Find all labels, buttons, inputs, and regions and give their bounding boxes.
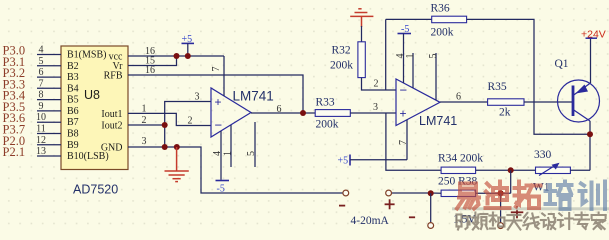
svg-text:B3: B3 [67,72,79,83]
svg-text:R34 200k: R34 200k [438,153,483,165]
op-amp LM741 (second, inverted) [396,79,457,128]
svg-text:+: + [400,107,407,121]
wire ground to R32 [361,26,363,42]
svg-text:+5: +5 [182,34,193,45]
svg-text:RFB: RFB [104,71,123,82]
svg-text:Q1: Q1 [555,58,569,70]
junction ground symbol tap [174,144,180,150]
svg-text:1: 1 [223,151,234,156]
svg-text:+24V: +24V [581,29,606,41]
svg-text:200k: 200k [330,60,353,72]
svg-text:LM741: LM741 [233,89,274,104]
svg-text:B9: B9 [67,140,79,151]
svg-text:5: 5 [39,56,44,67]
wire RFB to output node [128,75,303,113]
svg-text:200k: 200k [431,27,454,39]
resistor R33 200k [315,97,350,131]
wire R34 to W1 [476,169,536,171]
svg-text:1: 1 [142,103,147,114]
loop minus mark [409,216,415,218]
svg-text:5: 5 [246,151,257,156]
resistor R35 2k [488,81,525,119]
4-20mA minus mark [339,205,345,207]
junction Iout2 on ground vertical [162,122,168,128]
watermark underline bar [452,207,609,210]
svg-text:−: − [215,118,223,133]
watermark gray line (simulated CJK): she pin he tian xian she ji zhuan jia [457,213,606,230]
svg-text:Iout1: Iout1 [101,109,122,120]
4-20mA plus mark [385,199,395,209]
wire down to loop minus terminal [430,193,432,222]
wire R38 branch vertical [510,170,512,193]
wire GND pin to ground and bottom rail [128,147,346,193]
svg-text:11: 11 [36,124,46,135]
power +24V [581,29,606,41]
power +5 (bottom) [338,155,351,167]
wire W1 right to emitter vertical [570,169,590,171]
wire vcc pin16 to +5 and op1 pin7 [128,55,224,57]
wire +5 to op2 pin 7 [350,159,407,161]
watermark big chars 4-5 (blue-gray, simulated CJK) [546,182,606,210]
wire pin 10 B7 [37,121,61,123]
op-amp U? LM741 (first) [211,88,274,137]
wire R36 top run [386,18,432,20]
svg-text:4-20mA: 4-20mA [351,215,390,227]
wire pin 8 B5 [37,99,61,101]
junction 4-20mA minus drop [428,190,434,196]
ground symbol (middle) [165,147,189,182]
svg-text:2k: 2k [499,107,511,119]
junction gnd vertical meets GND wire [162,144,168,150]
IC U8 AD7520 body [61,46,128,170]
svg-text:2: 2 [188,116,193,127]
svg-text:P2.1: P2.1 [3,145,26,159]
svg-text:B2: B2 [67,61,79,72]
svg-text:-5: -5 [217,184,225,195]
svg-text:6: 6 [39,67,44,78]
svg-text:B4: B4 [67,83,79,94]
svg-text:5: 5 [428,54,439,59]
svg-text:R36: R36 [431,3,450,15]
svg-text:R33: R33 [316,97,335,109]
svg-text:3: 3 [195,92,200,103]
svg-text:6: 6 [456,92,461,103]
svg-text:200k: 200k [316,119,339,131]
power +5 (top) [182,34,195,56]
svg-text:B1(MSB): B1(MSB) [67,50,106,61]
power -5 (above op2) [398,24,412,35]
op1 pin 1 stub [223,125,234,167]
svg-text:AD7520: AD7520 [73,183,118,197]
wire Iout2 to ground vertical [128,124,165,126]
wire op1 non-inverting input to ground vertical [165,102,211,148]
op2 pin 7 stub down to +5 rail [398,120,409,160]
junction emitter node [587,131,593,137]
svg-text:+5: +5 [338,156,349,167]
wire op2 output to R35 [440,101,488,103]
terminal circle battery + [498,223,504,229]
wire R32 to op2 inverting input [362,78,397,90]
wire R35 to Q1 base [524,101,572,103]
junction on vcc net at +5 stem [185,53,191,59]
svg-text:−: − [400,83,408,98]
wire + input node down to R34 [386,113,441,170]
svg-text:B8: B8 [67,129,79,140]
svg-text:B6: B6 [67,106,79,117]
svg-text:12: 12 [36,135,46,146]
svg-text:1: 1 [405,54,416,59]
wire R36 right to emitter node [467,19,590,134]
wire Q1 emitter to +24V [590,38,592,83]
resistor R38 250 [438,175,478,196]
junction R34/R38 node [508,167,514,173]
wire Iout1 to op1 inverting input [128,113,211,125]
op2 pin 1 stub [405,53,416,88]
svg-text:16: 16 [145,65,155,76]
wire R38 right to branch vertical [476,192,511,194]
svg-text:Iout2: Iout2 [101,121,122,132]
op2 pin 5 stub [428,53,439,100]
svg-text:B5: B5 [67,95,79,106]
svg-text:330: 330 [534,149,552,161]
svg-text:3: 3 [142,136,147,147]
wire pin 5 B2 [37,65,61,67]
terminal circle 4-20mA + [386,190,392,196]
svg-text:-5: -5 [401,24,409,35]
wire pin 4 B1 [37,54,61,56]
svg-text:3: 3 [373,102,378,113]
wire pin 7 B4 [37,87,61,89]
svg-text:U8: U8 [84,88,100,102]
power -5 (below op1) [216,181,230,195]
svg-text:B7: B7 [67,117,79,128]
resistor R36 200k [431,3,467,39]
terminal circle 4-20mA - [343,190,349,196]
wire R33 to op2 non-inverting input [350,112,396,114]
wire pin 12 B9 [37,144,61,146]
svg-text:7: 7 [398,140,409,145]
svg-text:9: 9 [39,101,44,112]
wire R36 feedback left leg to inverting input [385,19,387,90]
resistor R34 200k [438,153,483,174]
junction output node / RFB [300,110,306,116]
svg-text:R35: R35 [488,81,507,93]
svg-text:7: 7 [39,78,44,89]
wire pin 6 B3 [37,76,61,78]
transistor Q1 (PNP) [555,58,600,122]
svg-text:LM741: LM741 [419,114,457,128]
wire Vr pin15 up to vcc net [128,56,177,66]
svg-text:7: 7 [211,67,222,72]
ground symbol (top, above R32) [350,9,373,27]
svg-text:13: 13 [36,146,46,157]
terminal circle loop minus [428,223,434,229]
wire down to battery + terminal [500,193,502,223]
watermark big chars 1-3 (red, simulated CJK) [457,182,541,209]
junction on vcc net at Vr [174,53,180,59]
op2 pin 4 stub from -5 [395,34,406,84]
wire pin 11 B8 [37,133,61,135]
svg-text:+: + [215,95,222,109]
wire pin 13 B10 [37,155,61,157]
battery plus mark [511,206,524,218]
svg-text:10: 10 [36,112,46,123]
junction battery + terminal tap [498,190,504,196]
potentiometer W1 330 [533,149,570,194]
svg-text:4: 4 [212,151,223,156]
wire op1 output to R33 [251,112,315,114]
wire emitter node vertical [589,121,591,170]
resistor R32 200k (vertical) [330,42,365,78]
svg-text:2: 2 [142,115,147,126]
svg-text:GND: GND [101,143,123,154]
op1 pin 4 stub to -5 [212,131,223,180]
svg-text:2: 2 [374,79,379,90]
svg-text:8: 8 [39,90,44,101]
svg-text:4: 4 [39,45,44,56]
op1 pin 5 stub [246,122,257,167]
wire pin 9 B6 [37,110,61,112]
wire 4-20mA plus terminal to R38 [392,192,442,194]
svg-text:R32: R32 [332,45,351,57]
op1 pin 7 stub from +5 rail [211,56,224,96]
